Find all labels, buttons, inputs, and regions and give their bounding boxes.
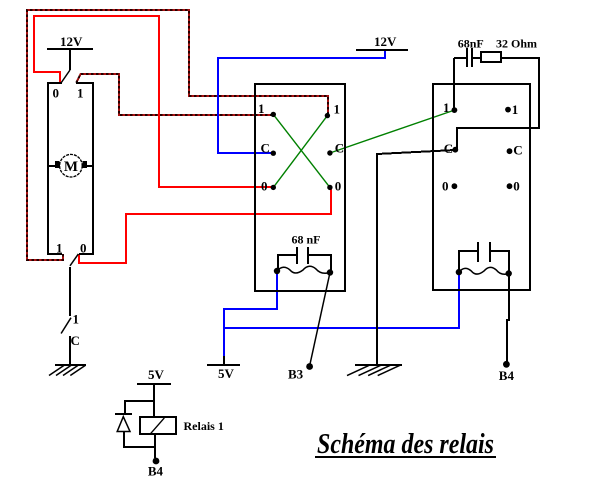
svg-text:C: C: [513, 143, 522, 158]
svg-text:B3: B3: [288, 367, 304, 382]
svg-text:1: 1: [443, 100, 450, 115]
svg-text:0: 0: [335, 179, 342, 194]
svg-text:1: 1: [56, 241, 63, 256]
svg-text:1: 1: [334, 102, 341, 117]
svg-text:0: 0: [80, 241, 87, 256]
svg-text:C: C: [335, 141, 344, 156]
svg-text:C: C: [71, 333, 80, 348]
svg-text:0: 0: [261, 179, 268, 194]
svg-text:12V: 12V: [60, 34, 83, 49]
svg-text:0: 0: [53, 86, 60, 101]
svg-text:1: 1: [512, 102, 519, 117]
svg-text:1: 1: [77, 86, 84, 101]
svg-text:0: 0: [442, 179, 449, 194]
svg-text:68nF: 68nF: [458, 37, 484, 51]
svg-text:5V: 5V: [218, 366, 235, 381]
svg-text:C: C: [444, 141, 453, 156]
svg-text:1: 1: [258, 101, 265, 116]
svg-text:M: M: [64, 159, 78, 175]
svg-text:5V: 5V: [148, 367, 165, 382]
svg-text:B4: B4: [148, 464, 164, 479]
svg-text:32 Ohm: 32 Ohm: [496, 37, 537, 51]
svg-text:1: 1: [73, 312, 80, 327]
svg-text:Schéma des relais: Schéma des relais: [317, 429, 494, 460]
svg-text:C: C: [261, 141, 270, 156]
svg-text:B4: B4: [499, 368, 515, 383]
svg-text:Relais 1: Relais 1: [184, 419, 224, 433]
svg-text:68 nF: 68 nF: [292, 233, 321, 247]
svg-text:12V: 12V: [374, 34, 397, 49]
svg-text:0: 0: [513, 179, 520, 194]
